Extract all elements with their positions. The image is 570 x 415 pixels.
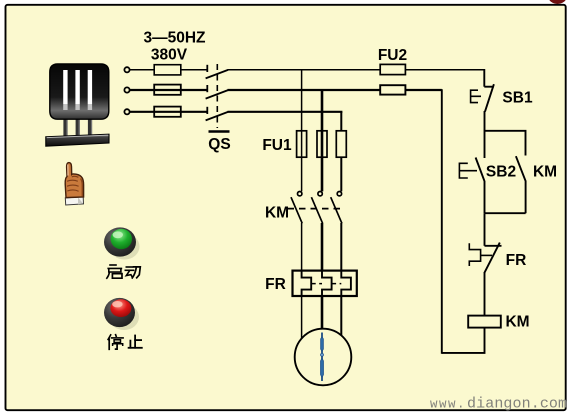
stop button (red)	[104, 298, 139, 330]
relay FR box	[293, 271, 357, 296]
drop wire W from L3	[340, 112, 342, 192]
contact FR (NC)	[484, 243, 501, 316]
启	[107, 265, 122, 278]
FR linkage dashes	[311, 283, 341, 285]
contactor KM pole 1	[291, 192, 302, 224]
KM linkage dashed	[288, 208, 345, 210]
label 停止	[108, 335, 142, 350]
svg-text:FR: FR	[265, 276, 286, 293]
phase L2 bus after QS	[228, 89, 442, 91]
transformer icon: screen body	[50, 64, 109, 119]
drop wire V from L2	[321, 90, 324, 191]
motor M circle	[295, 329, 352, 386]
svg-text:KM: KM	[533, 164, 557, 181]
fist	[65, 163, 83, 198]
svg-text:SB2: SB2	[486, 164, 516, 181]
contactor KM pole 2	[311, 192, 322, 224]
FR contact actuator	[469, 243, 480, 266]
transformer icon: white bars	[63, 70, 92, 110]
FR heater element 3	[341, 270, 351, 296]
wire coil to bottom	[442, 328, 485, 353]
fuse FU1 pole 3	[336, 131, 346, 157]
phase L1 bus after QS	[228, 69, 485, 71]
FR heater element 1	[302, 270, 312, 296]
button SB1 (NC)	[484, 84, 494, 131]
svg-text:KM: KM	[265, 205, 289, 222]
control line down from L1	[483, 69, 485, 87]
start button (green)	[104, 227, 140, 259]
wire V FR to motor	[321, 296, 324, 329]
phase L2 terminal	[124, 87, 129, 92]
wire V KM to FR	[321, 223, 324, 270]
止	[129, 336, 142, 348]
wire SB1 to SB2	[484, 131, 486, 158]
phase L3 wire to QS	[130, 111, 208, 113]
停	[108, 335, 123, 350]
svg-text:FU2: FU2	[378, 47, 407, 64]
FR heater element 2	[322, 270, 332, 296]
phase L3 supply box	[154, 107, 181, 117]
junction bar to KM aux	[485, 131, 526, 156]
SB2 actuator	[459, 163, 477, 178]
phase L2 supply box	[154, 85, 181, 95]
svg-text:QS: QS	[208, 136, 230, 153]
contactor KM pole 3	[331, 192, 342, 224]
fuse FU1 pole 2	[317, 131, 327, 157]
switch QS pole 1	[206, 65, 228, 79]
wire W KM to FR	[340, 223, 342, 270]
SB1 actuator	[471, 90, 481, 102]
thumb shade	[81, 179, 83, 197]
red logo fragment top-right	[548, 0, 566, 4]
phase L2 wire to QS	[130, 89, 208, 91]
cuff	[65, 197, 83, 205]
wire to FR contact	[484, 213, 486, 246]
transformer icon: legs	[63, 106, 92, 136]
label 启动	[107, 265, 140, 278]
phase L1 terminal	[124, 67, 129, 72]
QS linkage bar	[209, 130, 230, 133]
wire U FR to motor	[301, 296, 303, 338]
coil KM	[468, 316, 501, 328]
phase L3 bus after QS	[228, 111, 343, 113]
switch QS pole 2	[206, 85, 228, 99]
phase L1 supply box	[154, 65, 181, 75]
wire W FR to motor	[340, 296, 342, 335]
svg-text:www.diangon.com: www.diangon.com	[430, 396, 567, 413]
动	[125, 267, 140, 278]
phase L1 wire to QS	[130, 69, 208, 71]
merge bar	[485, 212, 526, 214]
svg-text:KM: KM	[505, 314, 529, 331]
phase L3 terminal	[124, 109, 129, 114]
svg-text:FU1: FU1	[262, 137, 292, 154]
button SB2 (NO)	[476, 158, 485, 214]
switch QS pole 3	[206, 107, 228, 121]
contact KM aux	[516, 156, 526, 213]
knuckle lines	[67, 176, 79, 191]
fuse FU2 pole 2	[380, 85, 405, 94]
svg-text:3—50HZ: 3—50HZ	[143, 30, 206, 47]
finger highlight	[67, 165, 69, 176]
control return wire up	[441, 89, 443, 354]
drop wire U from L1	[301, 70, 303, 192]
QS linkage dashed	[216, 64, 218, 128]
svg-text:FR: FR	[506, 252, 527, 269]
pointing hand icon	[65, 163, 83, 205]
wire U KM to FR	[301, 223, 303, 270]
svg-text:SB1: SB1	[502, 90, 533, 107]
fuse FU2 pole 1	[380, 64, 405, 74]
motor rotor symbol	[321, 333, 324, 382]
fuse FU1 pole 1	[297, 131, 307, 157]
svg-text:380V: 380V	[151, 47, 188, 64]
transformer icon: base	[46, 134, 109, 146]
